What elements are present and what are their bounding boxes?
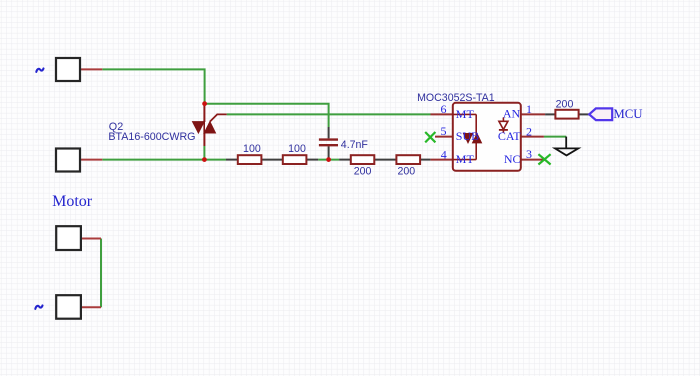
svg-text:4.7nF: 4.7nF	[341, 139, 369, 151]
svg-text:5: 5	[441, 124, 447, 138]
svg-text:6: 6	[441, 102, 447, 116]
svg-text:BTA16-600CWRG: BTA16-600CWRG	[108, 131, 195, 143]
svg-text:MOC3052S-TA1: MOC3052S-TA1	[417, 92, 495, 104]
svg-text:Motor: Motor	[52, 193, 93, 210]
svg-text:MT: MT	[456, 152, 475, 166]
svg-text:AN: AN	[503, 107, 521, 121]
svg-text:100: 100	[243, 143, 261, 155]
svg-text:MCU: MCU	[613, 107, 642, 121]
svg-text:200: 200	[354, 165, 372, 177]
svg-text:2: 2	[526, 124, 532, 138]
svg-text:100: 100	[288, 143, 306, 155]
svg-text:CAT: CAT	[498, 129, 521, 143]
svg-text:NC: NC	[504, 152, 521, 166]
svg-text:MT: MT	[456, 107, 475, 121]
svg-text:3: 3	[526, 147, 532, 161]
svg-text:200: 200	[556, 99, 574, 111]
svg-text:4: 4	[441, 148, 447, 162]
svg-text:1: 1	[526, 102, 532, 116]
svg-text:200: 200	[397, 165, 415, 177]
svg-text:SUB: SUB	[456, 129, 479, 143]
